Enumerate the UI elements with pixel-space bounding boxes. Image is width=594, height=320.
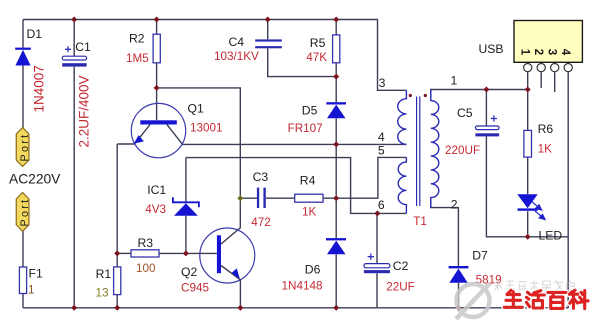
svg-text:C2: C2: [393, 259, 409, 273]
svg-text:FR107: FR107: [288, 122, 323, 135]
svg-text:R1: R1: [96, 267, 112, 281]
svg-text:1K: 1K: [538, 143, 553, 156]
svg-text:2: 2: [451, 198, 458, 212]
svg-text:1M5: 1M5: [126, 52, 149, 65]
svg-text:1N4148: 1N4148: [282, 279, 323, 292]
svg-text:AC220V: AC220V: [9, 172, 61, 187]
svg-text:C4: C4: [229, 35, 245, 49]
svg-text:1N4007: 1N4007: [32, 65, 47, 112]
svg-text:3: 3: [546, 49, 558, 55]
svg-text:47K: 47K: [306, 51, 327, 64]
svg-text:Q2: Q2: [181, 265, 197, 279]
svg-text:1K: 1K: [302, 205, 317, 218]
svg-text:2.2UF/400V: 2.2UF/400V: [77, 75, 92, 147]
svg-text:T1: T1: [413, 215, 427, 228]
svg-text:4V3: 4V3: [145, 203, 166, 216]
svg-text:5: 5: [378, 144, 385, 158]
svg-text:IC1: IC1: [147, 183, 166, 197]
svg-text:22UF: 22UF: [386, 281, 415, 294]
svg-text:D5: D5: [302, 103, 318, 117]
svg-text:C5: C5: [457, 106, 473, 120]
svg-text:D6: D6: [305, 263, 321, 277]
svg-text:Port: Port: [19, 132, 31, 161]
svg-text:13: 13: [96, 286, 109, 299]
svg-text:1: 1: [451, 74, 458, 88]
svg-text:C945: C945: [181, 282, 209, 295]
svg-text:13001: 13001: [190, 122, 223, 135]
svg-text:D1: D1: [27, 27, 43, 41]
svg-text:USB: USB: [479, 42, 504, 56]
svg-text:4: 4: [378, 130, 385, 144]
svg-text:220UF: 220UF: [445, 144, 480, 157]
svg-text:R3: R3: [138, 236, 154, 250]
svg-text:2: 2: [532, 49, 544, 55]
svg-text:1: 1: [519, 49, 531, 56]
svg-text:472: 472: [251, 216, 271, 229]
svg-text:D7: D7: [472, 249, 488, 263]
svg-text:LED: LED: [539, 229, 563, 243]
svg-text:C1: C1: [75, 40, 91, 54]
svg-text:Port: Port: [19, 197, 31, 226]
svg-text:Q1: Q1: [188, 101, 204, 115]
svg-text:R4: R4: [300, 173, 316, 187]
svg-text:R2: R2: [129, 32, 145, 46]
svg-text:103/1KV: 103/1KV: [214, 50, 259, 63]
svg-text:R5: R5: [310, 36, 326, 50]
svg-text:R6: R6: [538, 122, 554, 136]
svg-text:C3: C3: [253, 170, 269, 184]
svg-text:6: 6: [378, 198, 385, 212]
svg-text:4: 4: [559, 49, 571, 56]
svg-text:1: 1: [28, 283, 35, 296]
svg-text:100: 100: [136, 262, 156, 275]
svg-text:F1: F1: [29, 267, 43, 281]
svg-text:3: 3: [379, 76, 386, 90]
